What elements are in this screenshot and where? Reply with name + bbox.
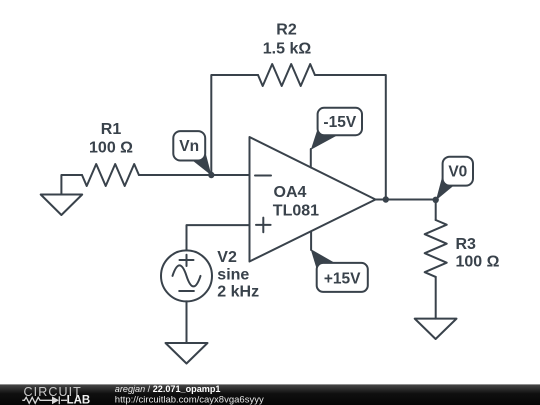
svg-text:http://circuitlab.com/cayx8vga: http://circuitlab.com/cayx8vga6syyy — [115, 394, 264, 405]
svg-text:-15V: -15V — [323, 114, 356, 131]
svg-text:R3: R3 — [456, 236, 477, 253]
svg-text:R1: R1 — [101, 121, 122, 138]
svg-text:TL081: TL081 — [273, 202, 319, 219]
svg-text:Vn: Vn — [179, 138, 199, 155]
svg-text:OA4: OA4 — [274, 184, 307, 201]
svg-text:V0: V0 — [448, 164, 467, 181]
svg-text:2 kHz: 2 kHz — [217, 283, 259, 300]
svg-text:LAB: LAB — [67, 395, 91, 405]
svg-text:+15V: +15V — [324, 271, 361, 288]
svg-text:aregjan / 22.071_opamp1: aregjan / 22.071_opamp1 — [115, 384, 221, 394]
svg-text:V2: V2 — [217, 249, 237, 266]
svg-text:sine: sine — [217, 266, 249, 283]
svg-text:100 Ω: 100 Ω — [456, 253, 500, 270]
svg-text:1.5 kΩ: 1.5 kΩ — [263, 41, 312, 58]
svg-text:R2: R2 — [276, 21, 297, 38]
svg-text:100 Ω: 100 Ω — [89, 140, 133, 157]
